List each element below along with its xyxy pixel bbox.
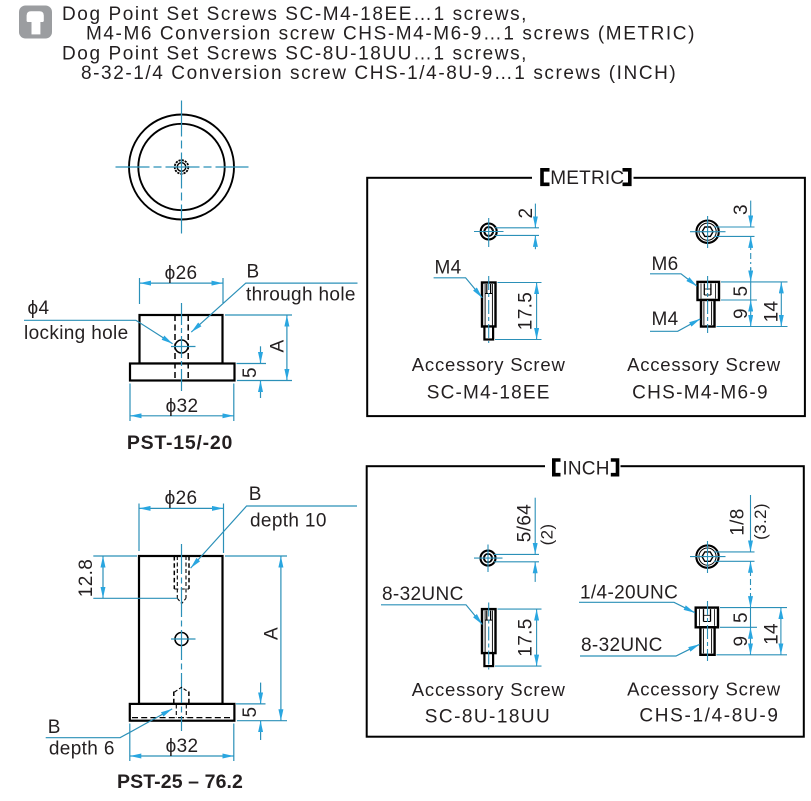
METRIC title right bracket <box>623 170 630 185</box>
CHS-1/4-8U-9 dim 1/8 line and outside arrows <box>750 495 752 552</box>
SC-8U-18UU top view crosshair <box>487 545 489 573</box>
SC-8U-18UU dim 5/64 flat lines <box>494 553 539 555</box>
CHS-1/4-8U-9 top view circles <box>696 545 718 567</box>
view2 top blind hole inner hidden lines <box>176 556 178 598</box>
view2 dim 12.8 extension lines <box>93 555 137 557</box>
svg-text:B: B <box>247 262 260 283</box>
view1 through hole hidden line left <box>174 315 176 381</box>
CHS-M4-M6-9 shank thread lines <box>703 302 705 326</box>
SC-8U-18UU dog point <box>484 653 493 666</box>
top view inner circle (body dia 26) <box>138 124 224 210</box>
svg-text:8-32UNC: 8-32UNC <box>581 635 663 656</box>
view1 dim phi26 line <box>140 282 224 284</box>
svg-text:Accessory Screw: Accessory Screw <box>627 679 781 700</box>
svg-text:PST-25 – 76.2: PST-25 – 76.2 <box>117 771 243 793</box>
view1 dim 5 extension line <box>237 363 267 365</box>
svg-text:M6: M6 <box>652 254 679 275</box>
svg-text:9: 9 <box>731 636 752 647</box>
SC-8U-18UU hex socket <box>484 554 492 561</box>
CHS-M4-M6-9 top view crosshair <box>707 216 709 248</box>
CHS-M4-M6-9 dim 3 line and outside arrows <box>750 201 752 227</box>
SC-8U-18UU centerline <box>488 603 490 670</box>
view1 dim A extension lines <box>225 314 292 316</box>
svg-text:ϕ26: ϕ26 <box>165 488 198 509</box>
screw icon badge <box>19 6 52 39</box>
view2 dim 5 outside arrows <box>260 683 262 704</box>
svg-text:B: B <box>48 717 61 738</box>
svg-text:Accessory Screw: Accessory Screw <box>627 354 781 375</box>
svg-text:1/8: 1/8 <box>728 508 749 535</box>
view1 dim 5 outside arrows <box>260 346 262 363</box>
view1 dim phi26 extension lines <box>139 278 141 304</box>
CHS-1/4-8U-9 leader 1/4-20UNC <box>579 602 695 612</box>
svg-text:3: 3 <box>731 204 752 215</box>
view2 dim A extension lines <box>225 555 287 557</box>
view1 dim phi32 line <box>130 415 234 417</box>
svg-text:14: 14 <box>762 301 783 323</box>
svg-text:8-32-1/4 Conversion screw CHS-: 8-32-1/4 Conversion screw CHS-1/4-8U-9…1… <box>81 63 677 84</box>
svg-text:ϕ32: ϕ32 <box>166 396 199 417</box>
svg-text:depth 10: depth 10 <box>250 511 327 532</box>
svg-text:8-32UNC: 8-32UNC <box>382 584 464 605</box>
view2 bottom blind hole point <box>175 687 189 692</box>
view2 bottom blind hole inner hidden lines <box>175 705 177 719</box>
METRIC title background <box>532 166 634 190</box>
svg-text:ϕ26: ϕ26 <box>165 263 198 284</box>
view2 flange outline <box>130 704 235 721</box>
svg-text:12.8: 12.8 <box>76 559 97 597</box>
view1 dim A line <box>286 315 288 381</box>
view2 dim phi32 extension lines <box>129 724 131 762</box>
CHS-M4-M6-9 leader M4 <box>650 319 700 331</box>
view2 bottom blind hole outer hidden lines <box>173 692 175 705</box>
view1 locking hole circle <box>175 340 188 353</box>
CHS-1/4-8U-9 dim 14 line <box>780 608 782 655</box>
CHS-1/4-8U-9 top view crosshair <box>707 541 709 573</box>
SC-8U-18UU socket marks <box>486 611 488 621</box>
view1 locking hole horizontal centerline <box>171 346 196 348</box>
SC-8U-18UU dim 17.5 line <box>536 609 538 666</box>
svg-text:5: 5 <box>240 707 261 718</box>
view1 vertical centerline <box>181 303 183 391</box>
svg-text:2: 2 <box>516 208 537 219</box>
svg-text:(2): (2) <box>538 524 557 546</box>
svg-text:17.5: 17.5 <box>516 618 537 656</box>
view2 locking hole circle <box>175 633 188 646</box>
view2 dim A line <box>280 556 282 721</box>
CHS-M4-M6-9 head socket section <box>703 284 705 296</box>
svg-text:1/4-20UNC: 1/4-20UNC <box>580 583 678 604</box>
CHS-M4-M6-9 hex socket <box>702 227 713 236</box>
SC-8U-18UU top view circle <box>481 551 496 566</box>
SC-M4-18EE socket marks <box>486 284 488 294</box>
svg-text:M4: M4 <box>652 309 679 330</box>
svg-text:SC-8U-18UU: SC-8U-18UU <box>425 707 551 728</box>
top view horizontal centerline <box>116 166 249 168</box>
svg-text:Accessory Screw: Accessory Screw <box>412 354 566 375</box>
CHS-1/4-8U-9 head <box>696 608 718 628</box>
view2 locking hole horizontal centerline <box>171 638 196 640</box>
CHS-M4-M6-9 shank <box>701 300 715 327</box>
CHS-1/4-8U-9 dim 5 line <box>750 608 752 628</box>
svg-text:SC-M4-18EE: SC-M4-18EE <box>427 383 551 404</box>
METRIC box frame <box>367 178 805 416</box>
SC-M4-18EE dog point <box>484 327 493 340</box>
SC-M4-18EE dim 2 line and outside arrows <box>534 204 536 228</box>
CHS-1/4-8U-9 shank thread lines <box>702 629 704 654</box>
top view vertical centerline <box>181 101 183 234</box>
view2 dim phi32 line <box>130 755 234 757</box>
SC-8U-18UU leader <box>381 605 482 625</box>
svg-text:CHS-M4-M6-9: CHS-M4-M6-9 <box>632 383 769 404</box>
svg-text:Dog Point Set Screws SC-8U-18U: Dog Point Set Screws SC-8U-18UU…1 screws… <box>62 43 528 64</box>
view2 dim phi26 extension lines <box>138 504 140 552</box>
svg-text:through hole: through hole <box>246 285 356 306</box>
SC-8U-18UU thread lines <box>484 611 486 653</box>
view1 leader B through hole <box>191 283 357 332</box>
CHS-1/4-8U-9 dash connector to head <box>750 579 752 594</box>
SC-M4-18EE centerline <box>488 276 490 343</box>
SC-M4-18EE top view crosshair <box>488 218 490 247</box>
CHS-M4-M6-9 top view circles <box>696 221 718 243</box>
CHS-1/4-8U-9 head socket section <box>703 609 705 621</box>
view2 dim 12.8 line <box>102 556 104 598</box>
view2 vertical centerline <box>181 544 183 731</box>
view2 leader B depth6 <box>46 709 173 738</box>
svg-text:14: 14 <box>761 623 782 645</box>
SC-M4-18EE top view circle <box>481 224 497 240</box>
INCH title left bracket <box>554 460 561 475</box>
CHS-1/4-8U-9 centerline <box>707 601 709 661</box>
svg-text:Accessory Screw: Accessory Screw <box>412 679 566 700</box>
view1 through hole hidden line right <box>187 315 189 381</box>
svg-text:9: 9 <box>731 308 752 319</box>
view2 dim 5 extension line <box>236 703 266 705</box>
SC-8U-18UU body <box>482 609 496 653</box>
svg-text:5: 5 <box>731 612 752 623</box>
CHS-1/4-8U-9 head knurl lines <box>699 609 701 626</box>
svg-text:INCH: INCH <box>562 458 609 479</box>
view1 dim phi32 extension lines <box>129 384 131 422</box>
SC-M4-18EE dim 17.5 extension lines <box>498 282 542 284</box>
CHS-M4-M6-9 dim 14 line <box>780 282 782 327</box>
CHS-M4-M6-9 centerline <box>707 276 709 333</box>
view2 dim phi26 line <box>139 507 224 509</box>
CHS-M4-M6-9 head <box>698 282 720 300</box>
CHS-1/4-8U-9 dim 9 line with arrows <box>750 627 752 655</box>
svg-text:depth 6: depth 6 <box>49 739 115 760</box>
CHS-1/4-8U-9 leader 8-32UNC <box>580 644 700 656</box>
svg-text:A: A <box>261 627 282 640</box>
svg-text:ϕ4: ϕ4 <box>28 298 50 319</box>
SC-M4-18EE dim 2 flat lines <box>495 227 539 229</box>
CHS-M4-M6-9 dim 5 line <box>750 282 752 300</box>
view1 leader phi4 locking hole <box>24 320 173 344</box>
SC-M4-18EE hex socket <box>484 228 493 236</box>
svg-text:5: 5 <box>731 286 752 297</box>
INCH title background <box>545 455 621 479</box>
svg-text:B: B <box>249 484 262 505</box>
view2 top blind hole outer hidden lines <box>173 556 175 589</box>
top view outer circle (flange dia 32) <box>129 115 234 220</box>
svg-text:5/64: 5/64 <box>515 504 536 542</box>
CHS-M4-M6-9 head knurl lines <box>700 284 702 299</box>
svg-text:5: 5 <box>240 367 261 378</box>
svg-text:CHS-1/4-8U-9: CHS-1/4-8U-9 <box>639 706 779 727</box>
CHS-M4-M6-9 dash connector to head <box>750 253 752 270</box>
INCH title right bracket <box>611 460 618 475</box>
view2 leader B depth10 <box>191 506 357 568</box>
svg-text:17.5: 17.5 <box>516 292 537 330</box>
SC-M4-18EE thread lines <box>484 284 486 326</box>
view1 flange outline <box>130 364 235 381</box>
top view center tapped hole <box>175 160 189 174</box>
svg-text:ϕ32: ϕ32 <box>166 736 199 757</box>
view2 flange hidden line <box>132 717 233 719</box>
INCH box frame <box>367 466 804 737</box>
svg-text:M4: M4 <box>435 258 462 279</box>
svg-text:M4-M6 Conversion screw CHS-M4-: M4-M6 Conversion screw CHS-M4-M6-9…1 scr… <box>86 24 696 45</box>
CHS-M4-M6-9 extension lines right <box>721 281 788 283</box>
SC-M4-18EE dim 17.5 line <box>536 283 538 340</box>
CHS-1/4-8U-9 hex socket <box>702 552 713 561</box>
CHS-1/4-8U-9 extension lines right <box>720 607 787 609</box>
CHS-M4-M6-9 leader M6 <box>650 274 697 286</box>
svg-text:Dog Point Set Screws SC-M4-18E: Dog Point Set Screws SC-M4-18EE…1 screws… <box>62 4 528 25</box>
view2 body outline <box>139 556 223 704</box>
svg-text:(3.2): (3.2) <box>751 503 770 540</box>
CHS-1/4-8U-9 shank <box>700 627 714 655</box>
SC-8U-18UU dim 17.5 extension lines <box>498 608 542 610</box>
svg-text:A: A <box>267 339 288 352</box>
METRIC title left bracket <box>542 170 550 185</box>
SC-8U-18UU dim 5/64 line and outside arrows <box>534 498 536 555</box>
SC-M4-18EE body <box>482 283 496 327</box>
svg-text:locking hole: locking hole <box>24 323 129 344</box>
CHS-M4-M6-9 dim 3 flat lines <box>714 226 755 228</box>
view1 body outline <box>140 315 223 364</box>
svg-text:METRIC: METRIC <box>550 168 624 189</box>
view2 top blind hole bottom dashes <box>174 588 189 590</box>
SC-M4-18EE leader M4 <box>434 278 483 298</box>
CHS-M4-M6-9 dim 9 line with arrows <box>750 300 752 327</box>
CHS-1/4-8U-9 dim 1/8 flat lines <box>714 551 755 553</box>
svg-text:PST-15/-20: PST-15/-20 <box>127 432 233 454</box>
